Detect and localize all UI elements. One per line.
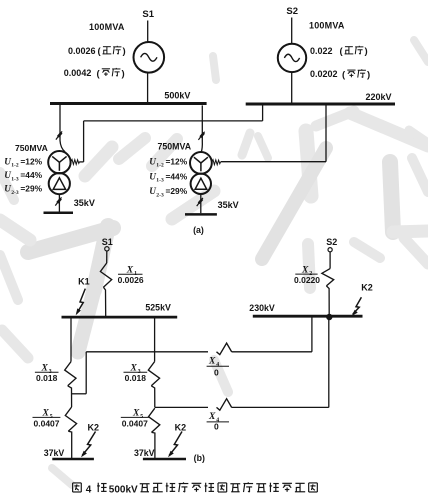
wire [221, 161, 326, 163]
svg-text:0.0220: 0.0220 [294, 275, 320, 285]
svg-text:0.0407: 0.0407 [122, 418, 148, 428]
svg-text:S2: S2 [326, 237, 337, 247]
svg-text:0: 0 [214, 368, 219, 378]
svg-text:=12%: =12% [20, 156, 42, 166]
svg-text:): ) [365, 46, 368, 57]
generator S2 [278, 44, 306, 72]
svg-text:0: 0 [214, 422, 219, 432]
wire [59, 105, 61, 141]
svg-text:=29%: =29% [166, 186, 188, 196]
wire [291, 72, 293, 103]
svg-text:500kV: 500kV [109, 484, 138, 495]
terminal 35kV (T1) [44, 212, 74, 215]
svg-text:0.018: 0.018 [36, 373, 58, 383]
transformer T2 wye winding [190, 152, 212, 174]
svg-text:2-3: 2-3 [11, 190, 19, 196]
svg-text:(a): (a) [193, 225, 204, 235]
bus 500kV [50, 102, 207, 105]
svg-text:): ) [122, 68, 125, 79]
svg-text:0.0026: 0.0026 [68, 46, 96, 56]
svg-text:525kV: 525kV [145, 302, 171, 312]
svg-text:0.022: 0.022 [310, 46, 333, 56]
transformer T1 wye winding [48, 151, 70, 173]
svg-text:K1: K1 [78, 277, 90, 287]
reactance X2 [329, 252, 331, 269]
fault marker [55, 197, 61, 205]
svg-text:4: 4 [86, 484, 92, 495]
bus 230kV [253, 315, 363, 318]
svg-text:0.0407: 0.0407 [34, 418, 60, 428]
svg-text:S1: S1 [102, 237, 113, 247]
wire X4 top branch [86, 351, 208, 353]
transformer T2 delta winding [191, 174, 211, 194]
svg-text:): ) [367, 70, 370, 81]
generator S1 [134, 42, 165, 73]
svg-text:35kV: 35kV [218, 200, 239, 210]
svg-text:=29%: =29% [20, 184, 42, 194]
wire [58, 194, 60, 211]
svg-text:1-3: 1-3 [156, 178, 164, 184]
svg-text:220kV: 220kV [366, 92, 392, 102]
wire [311, 318, 313, 352]
svg-text:750MVA: 750MVA [158, 142, 192, 152]
caption figure 4 [73, 482, 82, 484]
watermark [85, 147, 112, 176]
svg-text:=12%: =12% [166, 156, 188, 166]
reactance X5 (middle) [149, 408, 160, 432]
wire [201, 105, 203, 141]
wire [80, 161, 84, 163]
svg-text:K2: K2 [88, 423, 100, 433]
tap mark [71, 159, 80, 164]
terminal 37kV (left) [52, 458, 94, 461]
svg-text:(b): (b) [194, 453, 205, 463]
svg-text:): ) [123, 46, 126, 57]
junction [327, 314, 332, 319]
svg-text:1-2: 1-2 [156, 163, 164, 169]
svg-text:K2: K2 [361, 282, 373, 292]
reactance X1 [106, 251, 108, 263]
svg-text:1-3: 1-3 [11, 176, 19, 182]
svg-text:230kV: 230kV [249, 303, 275, 313]
svg-text:K2: K2 [175, 423, 187, 433]
wire riser [85, 352, 87, 394]
wire [147, 73, 149, 103]
transformer T1 delta winding [49, 173, 70, 194]
svg-text:0.018: 0.018 [125, 373, 147, 383]
svg-text:1-2: 1-2 [11, 163, 19, 169]
svg-text:0.0202: 0.0202 [310, 69, 338, 79]
terminal S2 [328, 248, 332, 252]
svg-text:100MVA: 100MVA [309, 21, 345, 31]
svg-text:37kV: 37kV [134, 448, 155, 458]
terminal S1 [105, 247, 109, 251]
svg-text:0.0042: 0.0042 [64, 68, 92, 78]
wire [147, 21, 149, 43]
terminal 35kV (T2) [185, 213, 217, 216]
reactance X3 (middle) [154, 318, 156, 361]
svg-text:37kV: 37kV [44, 448, 65, 458]
svg-text:=44%: =44% [20, 170, 42, 180]
svg-text:500kV: 500kV [164, 90, 190, 100]
wire X4 bottom branch [155, 406, 208, 408]
wire [328, 319, 330, 408]
svg-text:X: X [208, 357, 216, 367]
fault marker [197, 198, 203, 206]
svg-text:S1: S1 [142, 9, 154, 20]
wire [200, 194, 202, 213]
svg-text:S2: S2 [286, 6, 298, 17]
svg-text:=44%: =44% [166, 171, 188, 181]
tap mark [212, 160, 221, 165]
svg-text:0.0026: 0.0026 [118, 275, 144, 285]
wire [291, 18, 293, 44]
svg-text:2-3: 2-3 [156, 192, 164, 198]
svg-text:750MVA: 750MVA [15, 143, 48, 153]
svg-text:35kV: 35kV [74, 198, 95, 208]
reactance X5 (left) [65, 407, 76, 431]
svg-text:100MVA: 100MVA [89, 22, 125, 32]
reactance X3 (left) [70, 318, 72, 361]
terminal 37kV (middle) [143, 458, 186, 461]
bus 525kV [62, 316, 178, 319]
bus 220kV [246, 103, 395, 106]
fault marker [198, 132, 204, 140]
fault marker [56, 131, 62, 139]
